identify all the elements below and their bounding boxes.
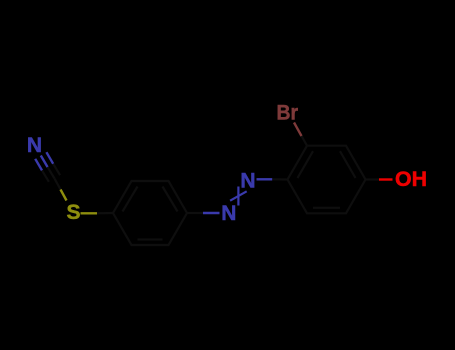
svg-text:Br: Br [277, 102, 299, 125]
right benzene ring (carbon skeleton) [288, 146, 366, 214]
svg-text:N: N [27, 134, 42, 157]
svg-text:S: S [66, 201, 80, 224]
bond ring-OH (oxygen half) [379, 178, 393, 180]
bond ring-OH (carbon half) [366, 178, 380, 180]
bond N-ring (carbon half) [272, 178, 287, 180]
bond N-ring (nitrogen half) [257, 178, 273, 180]
bond ring-Br (bromine half) [294, 123, 302, 137]
triple bond C#N (blue halves, N side) [35, 152, 53, 170]
nitrile N label [27, 134, 42, 157]
azo N upper label [240, 169, 255, 192]
S label [66, 201, 80, 224]
bond C-S (sulfur half) [61, 190, 67, 201]
bond ring-N azo (carbon half) [187, 212, 203, 214]
svg-text:OH: OH [395, 168, 427, 191]
azo N lower label [221, 202, 236, 225]
svg-text:N: N [240, 169, 255, 192]
bond S-ring (sulfur half) [81, 212, 98, 214]
left benzene ring (carbon skeleton) [113, 181, 187, 245]
bond ring-N azo (nitrogen half) [203, 212, 220, 214]
Br label [277, 102, 299, 125]
svg-text:N: N [221, 202, 236, 225]
bond ring-Br (carbon half) [301, 135, 307, 146]
triple bond C#N (carbon halves) [42, 164, 60, 182]
bond C-S (carbon half) [55, 179, 61, 190]
azo double bond N=N (crossed lines) [230, 187, 247, 206]
OH label [395, 168, 427, 191]
bond S-ring (carbon half) [97, 212, 113, 215]
